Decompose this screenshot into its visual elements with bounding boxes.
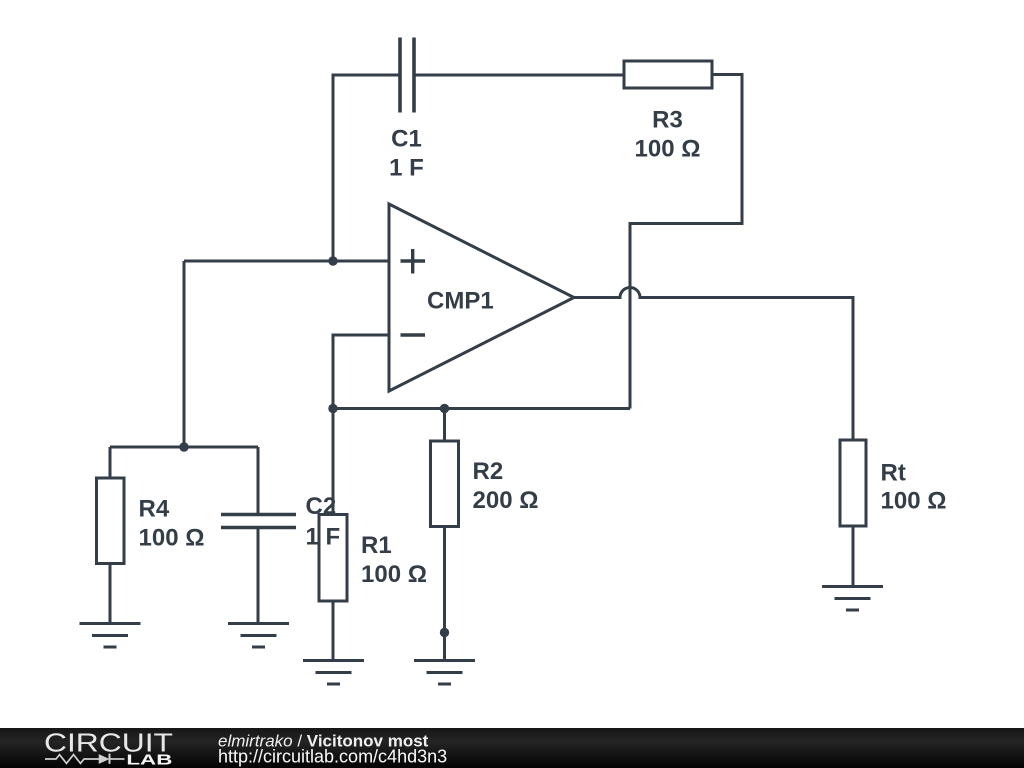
wire R4 bottom — [109, 564, 112, 624]
svg-text:http://circuitlab.com/c4hd3n3: http://circuitlab.com/c4hd3n3 — [218, 747, 447, 767]
svg-text:C1: C1 — [391, 126, 422, 153]
ground C2 — [228, 624, 289, 648]
wire feedback bus — [333, 407, 630, 410]
op-amp plus input symbol — [401, 249, 426, 274]
svg-text:LAB: LAB — [126, 753, 172, 768]
wire bottom-left horizontal — [110, 446, 258, 449]
op-amp minus input symbol — [401, 333, 426, 336]
svg-text:CMP1: CMP1 — [427, 288, 494, 315]
wire C2 top — [257, 447, 260, 513]
wire noninverting input — [184, 260, 389, 263]
footer bar — [0, 728, 1024, 768]
capacitor C1 — [400, 38, 414, 113]
resistor R4 — [97, 478, 125, 564]
node junction inverting bus R2 — [440, 404, 449, 413]
svg-text:R1: R1 — [361, 532, 392, 559]
wire R1 bottom — [332, 601, 335, 661]
wire inverting input — [333, 335, 389, 409]
resistor R2 — [431, 441, 459, 527]
ground R4 — [80, 624, 141, 648]
resistor Rt — [840, 440, 866, 526]
node junction on R2 ground wire — [440, 628, 449, 637]
wire R1 top — [332, 409, 335, 515]
wire left branch down — [183, 261, 186, 447]
op-amp CMP1 — [389, 204, 574, 391]
ground R2 — [414, 661, 475, 685]
svg-text:R3: R3 — [652, 107, 683, 134]
ground Rt — [822, 587, 883, 611]
wire R2 top — [443, 409, 446, 442]
svg-text:200 Ω: 200 Ω — [473, 487, 539, 514]
wire Rt bottom — [852, 526, 855, 587]
wire R3 to output node (right loop) — [630, 75, 742, 409]
node junction at noninverting input — [328, 256, 337, 265]
capacitor C2 — [221, 515, 296, 528]
wire R4 top — [109, 447, 112, 478]
svg-text:100 Ω: 100 Ω — [139, 524, 205, 551]
node junction left branch — [179, 442, 188, 451]
wire R2 bottom — [443, 527, 446, 661]
svg-text:100 Ω: 100 Ω — [361, 561, 427, 588]
svg-text:1 F: 1 F — [306, 524, 341, 551]
resistor R3 — [624, 61, 712, 88]
svg-text:R2: R2 — [473, 458, 504, 485]
svg-text:100 Ω: 100 Ω — [635, 136, 701, 163]
svg-text:100 Ω: 100 Ω — [881, 488, 947, 515]
resistor R1 — [319, 515, 347, 602]
wire output with hop over feedback — [574, 288, 853, 441]
wire from C1 left plate to noninverting node — [333, 75, 400, 261]
svg-text:1 F: 1 F — [389, 155, 424, 182]
ground R1 — [303, 661, 364, 685]
node junction inverting bus left — [328, 404, 337, 413]
wire C1 right plate to R3 — [414, 74, 624, 77]
svg-text:R4: R4 — [139, 496, 170, 523]
wire C2 bottom — [257, 529, 260, 624]
logo resistor-diode glyph — [45, 754, 125, 764]
svg-text:Rt: Rt — [881, 460, 906, 487]
